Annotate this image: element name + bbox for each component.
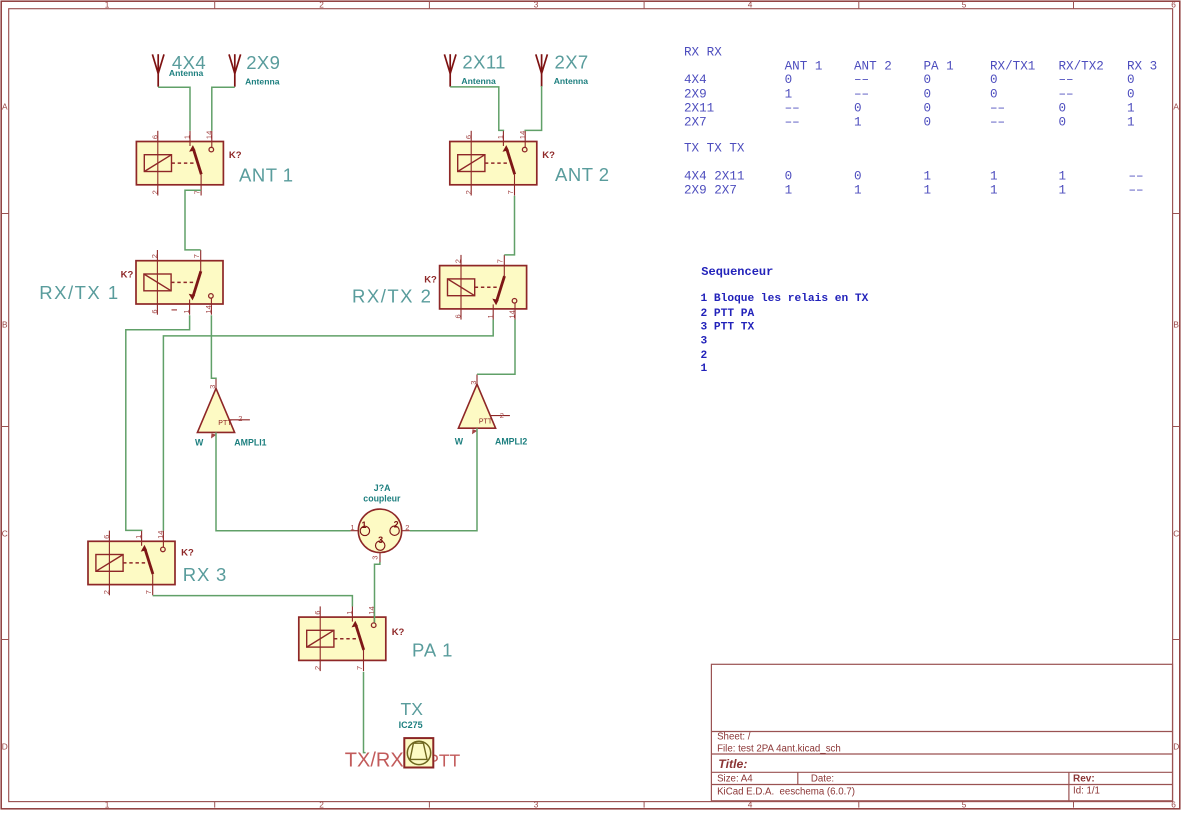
- svg-text:0: 0: [1127, 87, 1135, 101]
- svg-text:AMPLI1: AMPLI1: [234, 438, 266, 448]
- svg-text:1: 1: [105, 799, 110, 809]
- svg-text:RX/TX1: RX/TX1: [990, 60, 1035, 74]
- wire ANT1 pin7 to RX/TX1 pin7: [185, 190, 201, 250]
- wire coupler pin3 to PA1 pin14: [375, 562, 380, 623]
- wire PA1 pin7 to TX/RX PTT label: [364, 672, 366, 753]
- svg-text:6: 6: [1171, 0, 1176, 10]
- svg-text:0: 0: [924, 115, 932, 129]
- RX configuration table (notes): [684, 46, 1157, 198]
- svg-text:2: 2: [454, 259, 463, 263]
- svg-text:K?: K?: [392, 627, 405, 638]
- svg-text:0: 0: [854, 102, 862, 116]
- svg-text:Id: 1/1: Id: 1/1: [1073, 786, 1100, 797]
- svg-text:2X7: 2X7: [684, 115, 707, 129]
- relay K? ANT 1: [136, 131, 223, 196]
- svg-text:2: 2: [319, 799, 324, 809]
- svg-text:2: 2: [150, 254, 159, 258]
- svg-text:TX TX TX: TX TX TX: [684, 142, 745, 156]
- svg-text:0: 0: [990, 73, 998, 87]
- svg-text:Antenna: Antenna: [554, 76, 589, 86]
- svg-text:K?: K?: [121, 270, 134, 281]
- svg-text:––: ––: [990, 102, 1005, 116]
- svg-text:3: 3: [534, 799, 539, 809]
- svg-text:B: B: [1173, 320, 1179, 330]
- svg-text:Title:: Title:: [718, 757, 747, 771]
- svg-text:RX/TX 2: RX/TX 2: [352, 286, 432, 307]
- svg-text:––: ––: [785, 102, 800, 116]
- relay K? PA 1: [299, 606, 386, 671]
- svg-text:0: 0: [785, 73, 793, 87]
- svg-text:1: 1: [105, 0, 110, 10]
- svg-text:1: 1: [785, 184, 793, 198]
- svg-text:0: 0: [1127, 73, 1135, 87]
- svg-text:––: ––: [1129, 184, 1144, 198]
- svg-text:1: 1: [362, 520, 367, 530]
- svg-text:0: 0: [990, 87, 998, 101]
- svg-text:7: 7: [506, 190, 515, 194]
- svg-text:K?: K?: [229, 150, 242, 161]
- svg-text:––: ––: [785, 115, 800, 129]
- svg-text:TX/RX: TX/RX: [345, 750, 404, 772]
- svg-text:6: 6: [150, 309, 159, 313]
- wire ANT2 pin7 to RX/TX2 pin7: [504, 196, 514, 255]
- svg-text:RX RX: RX RX: [684, 46, 722, 60]
- svg-text:––: ––: [1059, 73, 1074, 87]
- svg-text:D: D: [1173, 742, 1179, 752]
- svg-text:A: A: [2, 101, 8, 111]
- svg-text:7: 7: [355, 666, 364, 670]
- svg-text:D: D: [2, 742, 8, 752]
- svg-text:5: 5: [962, 0, 967, 10]
- svg-text:1: 1: [924, 184, 932, 198]
- svg-text:4X4: 4X4: [684, 73, 707, 87]
- wire 2X7 to ANT2 pin14: [525, 86, 541, 131]
- svg-text:7: 7: [144, 590, 153, 594]
- svg-text:14: 14: [518, 131, 527, 139]
- svg-text:coupleur: coupleur: [363, 494, 401, 504]
- wire 2X9 to ANT1 pin14: [212, 87, 235, 131]
- relay K? RX 3: [88, 531, 175, 596]
- svg-text:2: 2: [150, 190, 159, 194]
- svg-text:3: 3: [208, 385, 217, 389]
- wire RX/TX1 pin14 to AMPLI1 pin3: [211, 315, 216, 379]
- svg-text:1: 1: [182, 309, 191, 313]
- svg-text:IC275: IC275: [399, 720, 423, 730]
- svg-text:1: 1: [785, 87, 793, 101]
- svg-text:2X9 2X7: 2X9 2X7: [684, 184, 737, 198]
- svg-text:2: 2: [405, 523, 409, 532]
- sequenceur notes: [701, 265, 869, 375]
- svg-text:0: 0: [924, 87, 932, 101]
- svg-text:K?: K?: [181, 548, 194, 559]
- svg-text:3 PTT TX: 3 PTT TX: [701, 321, 755, 333]
- op-amp AMPLI1: [197, 388, 234, 432]
- svg-text:1: 1: [183, 135, 192, 139]
- wire AMPLI1 out to coupler pin1: [216, 432, 350, 530]
- svg-text:ANT 2: ANT 2: [854, 60, 892, 74]
- antenna AE 2X9: [229, 54, 235, 73]
- wire RX/TX1 pin1 to RX3 pin1: [126, 315, 190, 531]
- svg-text:3: 3: [378, 535, 383, 545]
- svg-text:C: C: [2, 529, 8, 539]
- svg-text:RX 3: RX 3: [1127, 60, 1157, 74]
- svg-text:A: A: [1173, 101, 1179, 111]
- svg-text:1: 1: [854, 184, 862, 198]
- svg-text:0: 0: [924, 102, 932, 116]
- svg-text:3: 3: [701, 336, 708, 348]
- svg-text:3: 3: [469, 381, 478, 385]
- svg-text:6: 6: [313, 611, 322, 615]
- relay K? ANT 2: [450, 131, 537, 196]
- svg-text:Antenna: Antenna: [245, 76, 280, 86]
- svg-text:6: 6: [464, 135, 473, 139]
- wire RX3 pin7 to PA1 pin1: [153, 596, 353, 607]
- svg-text:ANT 1: ANT 1: [239, 165, 294, 186]
- svg-text:0: 0: [1059, 115, 1067, 129]
- svg-text:2: 2: [313, 666, 322, 670]
- svg-text:1: 1: [496, 135, 505, 139]
- svg-text:2: 2: [500, 411, 504, 420]
- svg-text:0: 0: [924, 73, 932, 87]
- wire RX/TX2 pin14 to AMPLI2 pin3: [477, 320, 515, 375]
- svg-text:File: test 2PA 4ant.kicad_sch: File: test 2PA 4ant.kicad_sch: [717, 744, 841, 755]
- wire coupler pin2 to AMPLI2 in: [410, 428, 477, 531]
- svg-text:Rev:: Rev:: [1073, 773, 1095, 784]
- svg-text:3: 3: [370, 556, 379, 560]
- svg-text:PA 1: PA 1: [412, 640, 453, 661]
- svg-text:14: 14: [204, 305, 213, 313]
- svg-text:1: 1: [701, 363, 708, 375]
- svg-text:7: 7: [192, 254, 201, 258]
- relay K? RX/TX 1: [136, 250, 223, 315]
- svg-text:1: 1: [1127, 115, 1135, 129]
- svg-text:Antenna: Antenna: [461, 76, 496, 86]
- svg-text:4: 4: [748, 0, 753, 10]
- svg-text:1: 1: [1059, 170, 1067, 184]
- svg-text:W: W: [455, 437, 464, 447]
- svg-text:––: ––: [990, 115, 1005, 129]
- svg-text:K?: K?: [542, 150, 555, 161]
- svg-text:PTT: PTT: [218, 420, 232, 427]
- svg-text:Antenna: Antenna: [169, 68, 204, 78]
- svg-text:Size: A4: Size: A4: [717, 773, 753, 784]
- svg-text:––: ––: [854, 87, 869, 101]
- wire 4X4 to ANT1 pin1: [158, 87, 190, 131]
- svg-text:RX 3: RX 3: [183, 564, 227, 585]
- svg-text:2: 2: [464, 190, 473, 194]
- svg-text:14: 14: [156, 531, 165, 539]
- svg-text:2X7: 2X7: [555, 52, 589, 73]
- svg-text:ANT 1: ANT 1: [785, 60, 823, 74]
- svg-text:0: 0: [1059, 102, 1067, 116]
- svg-text:2: 2: [102, 590, 111, 594]
- svg-text:1: 1: [990, 184, 998, 198]
- svg-text:1: 1: [1127, 102, 1135, 116]
- svg-text:1: 1: [1059, 184, 1067, 198]
- svg-text:RX/TX2: RX/TX2: [1059, 60, 1104, 74]
- svg-text:2X9: 2X9: [684, 87, 707, 101]
- wire 2X11 to ANT2 pin1: [450, 87, 503, 131]
- title block: [711, 664, 1172, 801]
- svg-text:W: W: [195, 438, 204, 448]
- wire RX/TX2 pin1 to RX3 pin14: [163, 320, 493, 531]
- svg-text:––: ––: [1129, 170, 1144, 184]
- svg-text:K?: K?: [424, 275, 437, 286]
- svg-text:6: 6: [454, 314, 463, 318]
- svg-text:1: 1: [990, 170, 998, 184]
- svg-text:2: 2: [319, 0, 324, 10]
- microphone MK? TX IC275: [404, 738, 433, 767]
- svg-text:2: 2: [394, 520, 399, 530]
- svg-text:TX: TX: [401, 699, 424, 719]
- svg-text:2 PTT PA: 2 PTT PA: [701, 308, 755, 320]
- svg-text:2X9: 2X9: [246, 52, 280, 73]
- svg-text:––: ––: [1059, 87, 1074, 101]
- svg-text:3: 3: [534, 0, 539, 10]
- svg-text:2: 2: [238, 414, 242, 423]
- svg-text:1: 1: [345, 611, 354, 615]
- svg-text:1: 1: [486, 314, 495, 318]
- svg-text:1: 1: [350, 523, 354, 532]
- svg-text:1: 1: [134, 535, 143, 539]
- svg-text:PA 1: PA 1: [924, 60, 954, 74]
- svg-text:KiCad E.D.A. eeschema (6.0.7): KiCad E.D.A. eeschema (6.0.7): [717, 787, 855, 798]
- svg-text:2X11: 2X11: [462, 52, 505, 73]
- svg-text:––: ––: [854, 73, 869, 87]
- svg-text:Date:: Date:: [811, 773, 834, 784]
- svg-text:C: C: [1173, 529, 1179, 539]
- svg-text:14: 14: [204, 131, 213, 139]
- svg-text:Sheet: /: Sheet: /: [717, 732, 751, 743]
- relay K? RX/TX 2: [440, 255, 527, 320]
- op-amp AMPLI2: [458, 384, 495, 428]
- svg-text:1: 1: [854, 115, 862, 129]
- svg-text:ANT 2: ANT 2: [555, 164, 610, 185]
- svg-text:AMPLI2: AMPLI2: [495, 436, 527, 446]
- svg-text:0: 0: [785, 170, 793, 184]
- connector J?A coupleur: [358, 509, 401, 552]
- svg-text:PTT: PTT: [479, 419, 493, 426]
- svg-text:RX/TX 1: RX/TX 1: [39, 282, 119, 303]
- svg-text:6: 6: [150, 135, 159, 139]
- antenna AE 2X11: [444, 54, 450, 73]
- svg-text:Sequenceur: Sequenceur: [701, 265, 773, 279]
- antenna AE 2X7: [536, 54, 542, 73]
- svg-text:4X4 2X11: 4X4 2X11: [684, 170, 744, 184]
- svg-text:B: B: [2, 320, 8, 330]
- svg-text:14: 14: [508, 310, 517, 318]
- svg-text:0: 0: [854, 170, 862, 184]
- svg-text:2X11: 2X11: [684, 102, 714, 116]
- svg-text:7: 7: [496, 259, 505, 263]
- svg-text:J?A: J?A: [374, 483, 391, 493]
- svg-text:2: 2: [701, 350, 708, 362]
- svg-text:6: 6: [102, 535, 111, 539]
- svg-text:1 Bloque les relais en TX: 1 Bloque les relais en TX: [701, 293, 869, 305]
- antenna AE 4X4: [152, 54, 158, 73]
- svg-text:1: 1: [924, 170, 932, 184]
